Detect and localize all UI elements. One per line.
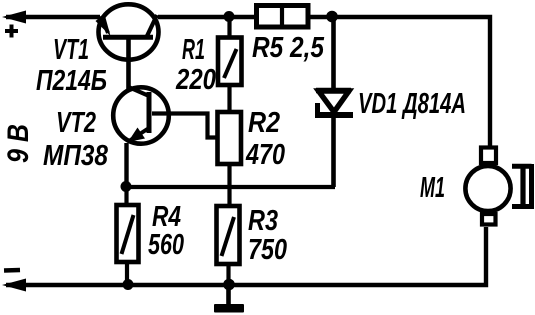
svg-text:R5 2,5: R5 2,5 [252, 32, 325, 64]
node R4 bottom junction [123, 279, 134, 290]
label 750 [248, 234, 287, 266]
VT2 emitter wire [124, 143, 128, 188]
minus supply arrow [2, 279, 26, 292]
svg-text:9 В: 9 В [2, 124, 35, 163]
svg-text:VD1 Д814А: VD1 Д814А [358, 88, 466, 120]
svg-text:VT2: VT2 [56, 107, 96, 139]
svg-text:220: 220 [175, 64, 216, 96]
wire R4 to bottom rail [125, 262, 129, 286]
svg-text:560: 560 [148, 229, 184, 261]
label 560 [148, 229, 184, 261]
label VT2 [56, 107, 96, 139]
wire junction to VD1 [331, 17, 336, 91]
wire bottom rail [6, 227, 486, 285]
transistor VT1 [96, 4, 159, 59]
node VD1 top junction [326, 11, 338, 23]
svg-text:750: 750 [248, 234, 287, 266]
svg-text:МП38: МП38 [43, 140, 109, 172]
resistor R3 [217, 206, 240, 264]
node VT2 emitter junction [121, 181, 132, 192]
resistor R5 [257, 6, 309, 28]
label П214Б [36, 65, 107, 97]
label VT1 [53, 34, 89, 66]
svg-text:VT1: VT1 [53, 34, 89, 66]
label R3 [248, 205, 278, 237]
ground [214, 304, 244, 313]
VT1 base wire [126, 39, 131, 89]
wire top rail [6, 17, 490, 147]
wire node to R4 [124, 187, 128, 206]
wire R1 to rail [227, 17, 231, 38]
wire emitter node to VD1 [126, 185, 335, 189]
wire VD1 to emitter rail [331, 114, 336, 187]
label R4 [152, 201, 181, 233]
VT2 base wire [152, 114, 218, 138]
zener diode VD1 [315, 91, 353, 116]
wire R2 to R3 [227, 164, 231, 207]
label R2 [248, 107, 280, 139]
motor M1 [465, 148, 510, 225]
label МП38 [43, 140, 109, 172]
node R3 bottom junction [223, 279, 235, 291]
svg-text:П214Б: П214Б [36, 65, 107, 97]
wire R1 to R2 [227, 85, 231, 113]
motor brush bracket [512, 164, 532, 209]
resistor R1 [218, 38, 242, 86]
label R1 [182, 34, 205, 66]
svg-text:R2: R2 [248, 107, 280, 139]
label M1 [420, 172, 445, 204]
svg-text:R1: R1 [182, 34, 205, 66]
label R5 2,5 [252, 32, 325, 64]
battery label 9 В [2, 124, 35, 163]
plus label [5, 25, 18, 38]
resistor R2 [218, 112, 242, 164]
label VD1 Д814А [358, 88, 466, 120]
resistor R4 [117, 205, 139, 262]
transistor VT2 [113, 87, 169, 144]
svg-text:М1: М1 [420, 172, 445, 204]
wire to ground [226, 285, 231, 305]
plus supply arrow [2, 11, 26, 24]
minus label [4, 268, 20, 273]
svg-text:470: 470 [245, 139, 285, 171]
svg-text:R3: R3 [248, 205, 278, 237]
wire R3 to bottom rail [226, 264, 230, 286]
label 470 [245, 139, 285, 171]
label 220 [175, 64, 216, 96]
node R1 top junction [224, 11, 235, 22]
